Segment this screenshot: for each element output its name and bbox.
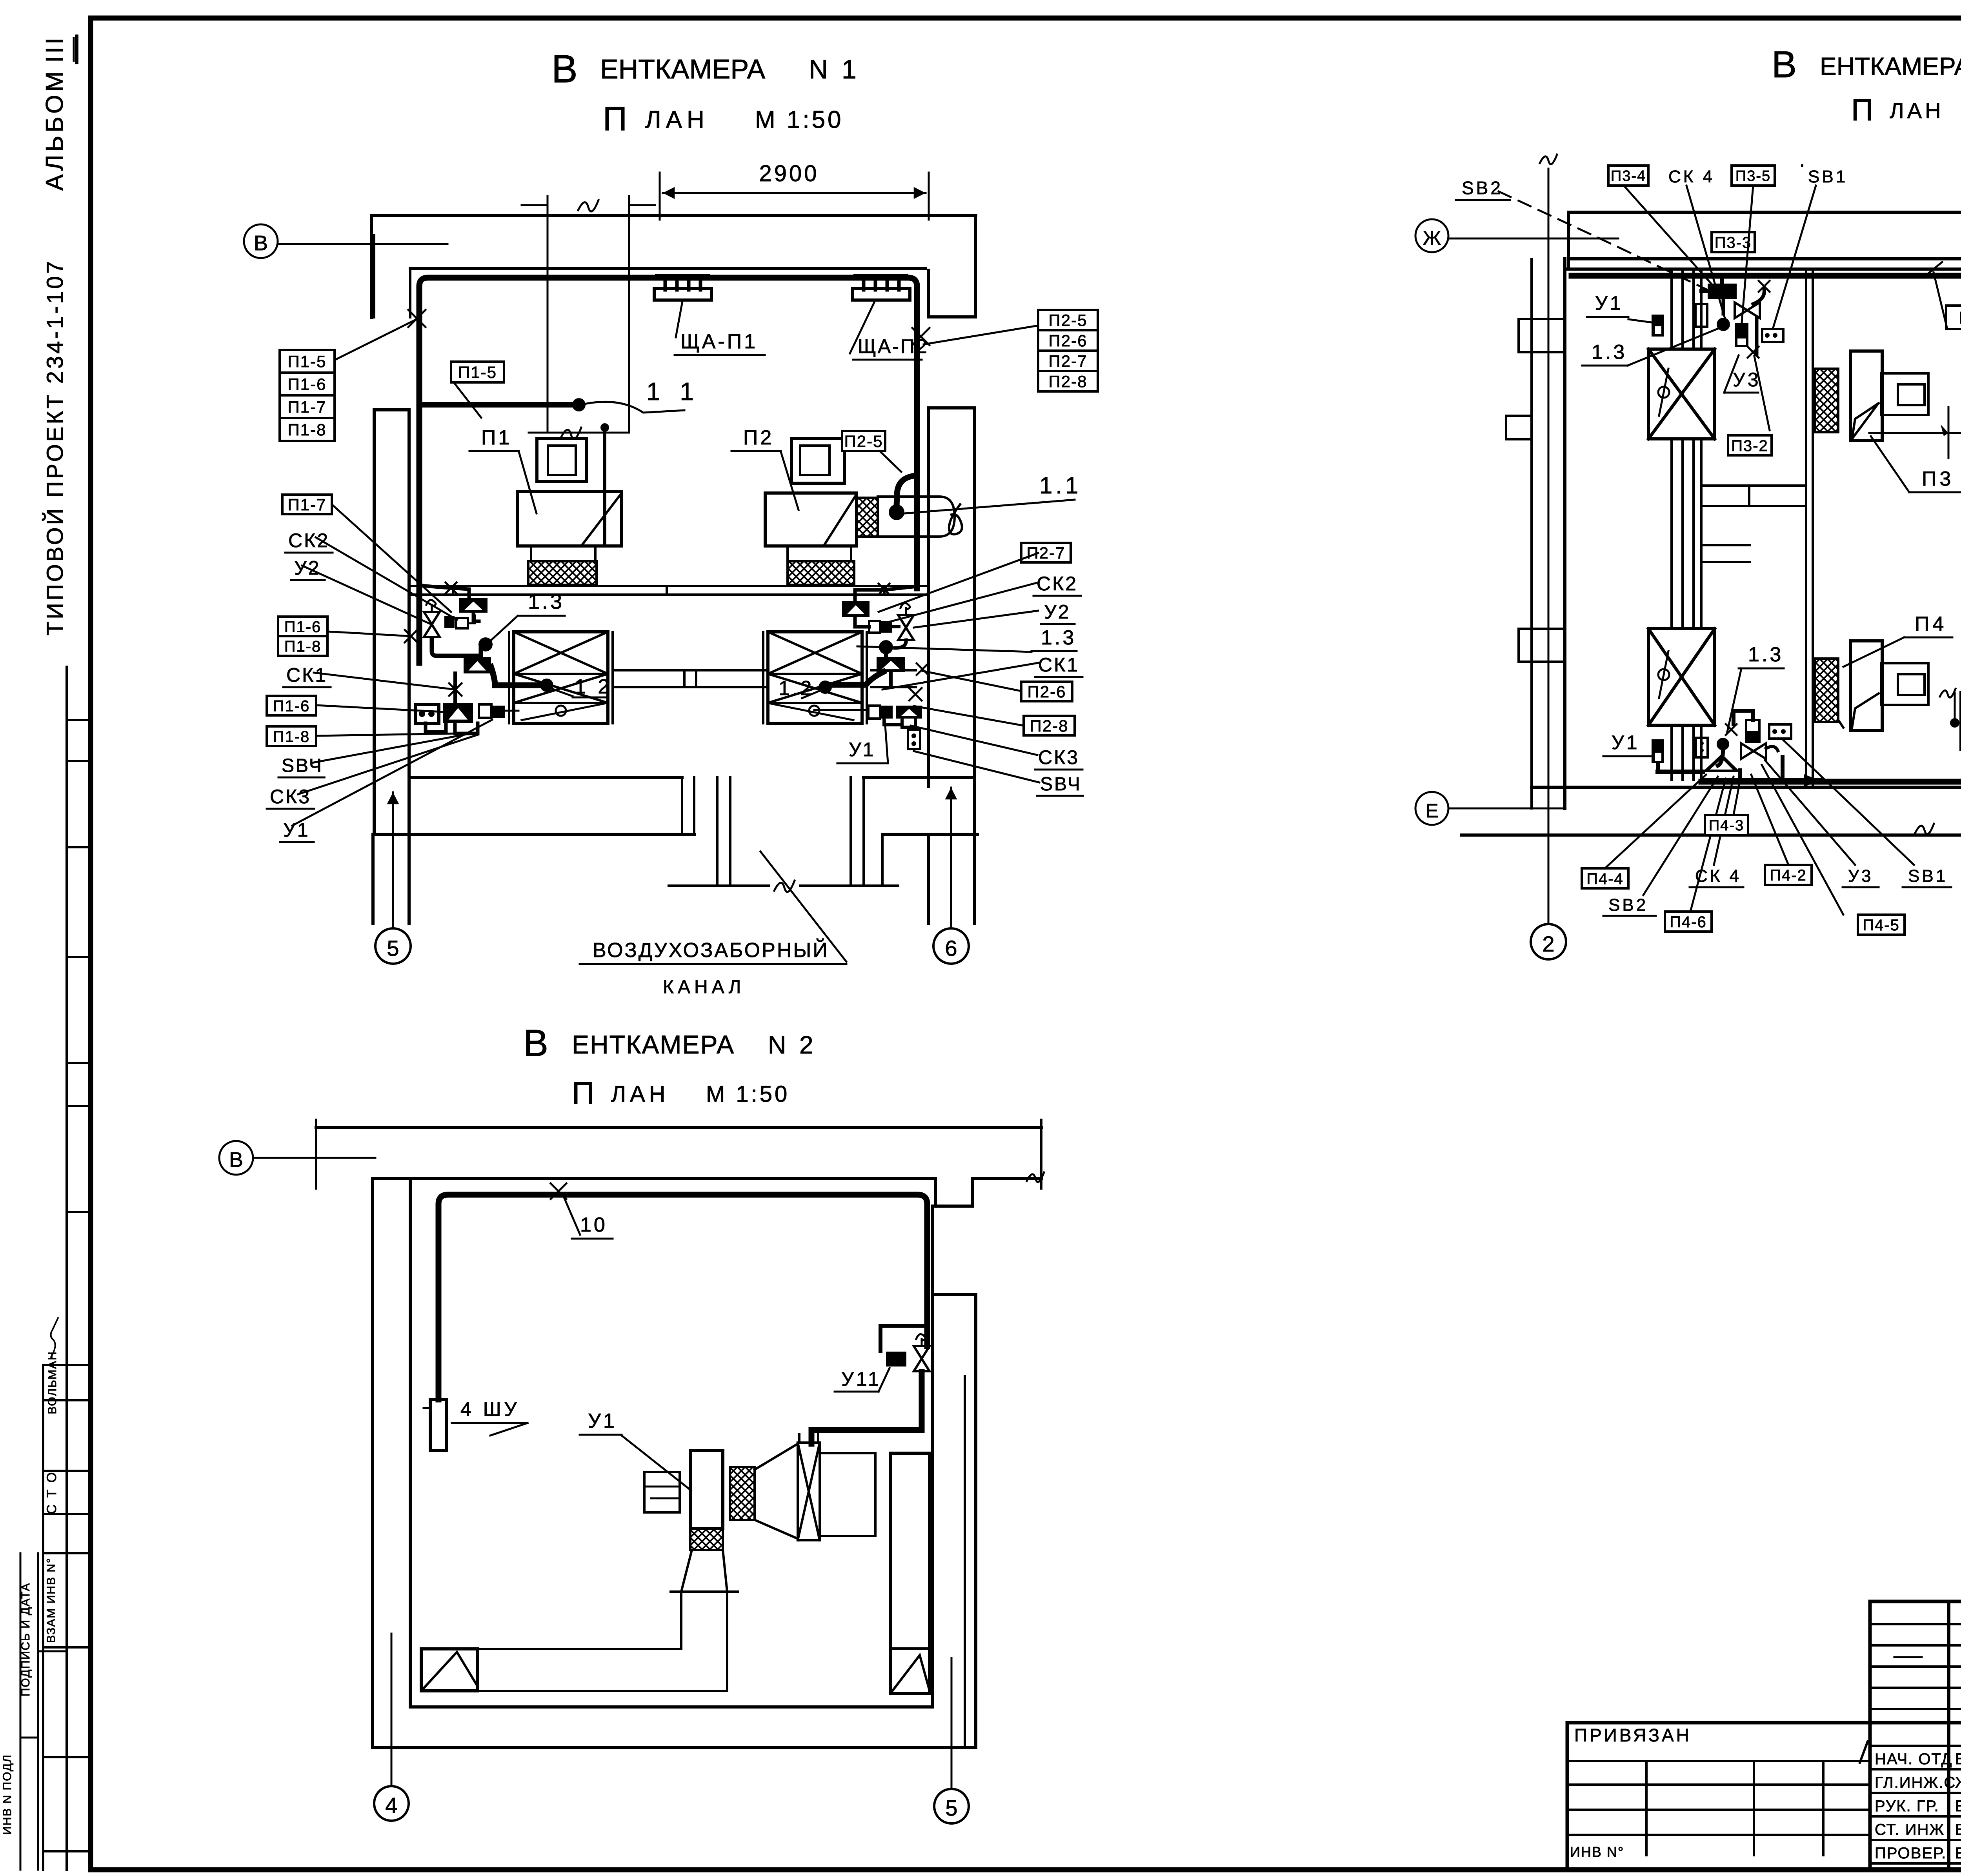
svg-text:ВОЛЬМАН: ВОЛЬМАН <box>46 1351 59 1414</box>
svg-text:SВ2: SВ2 <box>1608 895 1648 915</box>
svg-text:П2-8: П2-8 <box>1049 372 1088 391</box>
svg-text:С Т О: С Т О <box>44 1471 59 1514</box>
svg-text:П2: П2 <box>743 426 774 449</box>
svg-text:Ж: Ж <box>1423 227 1441 249</box>
svg-text:У1: У1 <box>849 739 875 761</box>
svg-text:В: В <box>1772 44 1797 86</box>
svg-text:П2-7: П2-7 <box>1049 352 1088 370</box>
svg-text:ПРИВЯЗАН: ПРИВЯЗАН <box>1574 1725 1692 1745</box>
svg-text:П1-7: П1-7 <box>288 495 327 514</box>
svg-text:П: П <box>1851 93 1873 127</box>
svg-text:У3: У3 <box>1848 866 1873 886</box>
svg-text:П2-6: П2-6 <box>1049 331 1088 350</box>
svg-text:В: В <box>254 231 268 255</box>
svg-text:П3-1: П3-1 <box>1959 308 1961 328</box>
svg-text:П2-5: П2-5 <box>1049 311 1088 329</box>
svg-text:У1: У1 <box>1595 292 1623 314</box>
svg-text:ИНВ N ПОДЛ: ИНВ N ПОДЛ <box>1 1754 14 1835</box>
svg-text:ЛАН: ЛАН <box>645 106 709 133</box>
svg-text:П4-6: П4-6 <box>1670 913 1707 931</box>
svg-text:SВ1: SВ1 <box>1808 167 1848 186</box>
svg-text:ЕФРЕМОВА: ЕФРЕМОВА <box>1955 1798 1961 1815</box>
svg-text:ЕНТКАМЕРА: ЕНТКАМЕРА <box>572 1030 735 1059</box>
svg-text:М 1:50: М 1:50 <box>706 1081 789 1107</box>
svg-text:П1-6: П1-6 <box>284 618 322 635</box>
svg-text:П3-2: П3-2 <box>1731 437 1768 455</box>
svg-text:SВ2: SВ2 <box>1462 178 1503 198</box>
svg-text:П2-6: П2-6 <box>1028 682 1066 701</box>
svg-text:П: П <box>603 100 627 138</box>
svg-text:СК 4: СК 4 <box>1695 866 1741 886</box>
svg-text:1 2: 1 2 <box>575 675 612 698</box>
svg-text:ПРОВЕР.: ПРОВЕР. <box>1875 1845 1946 1862</box>
svg-text:1 1: 1 1 <box>646 377 700 406</box>
svg-text:П4: П4 <box>1915 613 1947 635</box>
svg-text:НАЧ. ОТД: НАЧ. ОТД <box>1875 1750 1953 1768</box>
svg-text:П3-4: П3-4 <box>1611 168 1646 184</box>
svg-text:ЕФРЕМОВА: ЕФРЕМОВА <box>1955 1845 1961 1862</box>
svg-text:ЛАН: ЛАН <box>1890 98 1944 123</box>
svg-text:У1: У1 <box>1612 731 1640 753</box>
svg-text:П3: П3 <box>1922 468 1954 490</box>
svg-text:П2-8: П2-8 <box>1030 717 1069 735</box>
svg-text:ТИПОВОЙ ПРОЕКТ 234-1-107: ТИПОВОЙ ПРОЕКТ 234-1-107 <box>42 259 68 635</box>
svg-text:1.3: 1.3 <box>528 590 564 613</box>
svg-text:П1-8: П1-8 <box>273 728 310 745</box>
svg-text:ВОЗДУХОЗАБОРНЫЙ: ВОЗДУХОЗАБОРНЫЙ <box>593 939 829 962</box>
svg-text:SВ1: SВ1 <box>1908 866 1948 886</box>
svg-text:П1-8: П1-8 <box>288 420 327 439</box>
svg-text:СК3: СК3 <box>270 786 311 808</box>
svg-text:У1: У1 <box>588 1410 617 1432</box>
svg-text:5: 5 <box>387 936 399 961</box>
svg-text:СК 4: СК 4 <box>1668 167 1715 186</box>
svg-text:В: В <box>523 1022 548 1064</box>
svg-text:SВЧ: SВЧ <box>1040 774 1082 795</box>
svg-text:Е: Е <box>1425 800 1438 822</box>
svg-text:РУК. ГР.: РУК. ГР. <box>1875 1798 1939 1815</box>
svg-text:ЕНТКАМЕРА: ЕНТКАМЕРА <box>600 54 765 84</box>
svg-text:N 1: N 1 <box>809 55 860 84</box>
svg-text:СК1: СК1 <box>1038 654 1079 676</box>
svg-text:КАНАЛ: КАНАЛ <box>663 977 745 997</box>
svg-text:М 1:50: М 1:50 <box>755 106 844 133</box>
svg-text:ГЛ.ИНЖ.С: ГЛ.ИНЖ.С <box>1875 1774 1956 1791</box>
svg-text:ЩА-П1: ЩА-П1 <box>680 330 758 353</box>
svg-text:П4-5: П4-5 <box>1863 917 1900 934</box>
svg-text:В: В <box>551 47 578 91</box>
svg-text:1.3: 1.3 <box>1592 341 1627 364</box>
svg-text:5: 5 <box>945 1796 957 1820</box>
svg-text:4 ШУ: 4 ШУ <box>460 1398 520 1420</box>
svg-text:СК3: СК3 <box>1038 746 1079 768</box>
svg-text:1.3: 1.3 <box>1041 626 1076 649</box>
svg-text:П2-5: П2-5 <box>844 432 883 451</box>
svg-text:СК2: СК2 <box>288 530 329 551</box>
svg-text:ИНВ N°: ИНВ N° <box>1570 1844 1624 1860</box>
svg-text:СТ. ИНЖ: СТ. ИНЖ <box>1875 1821 1945 1838</box>
svg-text:N 2: N 2 <box>768 1031 817 1059</box>
svg-text:ЕНТКАМЕРА: ЕНТКАМЕРА <box>1820 52 1961 80</box>
svg-text:1.1: 1.1 <box>1039 472 1081 499</box>
svg-text:ЖИЛОВ: ЖИЛОВ <box>1955 1774 1961 1791</box>
svg-text:У1: У1 <box>283 819 310 841</box>
svg-text:В: В <box>229 1148 243 1172</box>
svg-text:У11: У11 <box>841 1368 881 1390</box>
svg-text:П3-5: П3-5 <box>1735 168 1771 184</box>
svg-text:АЛЬБОМ: АЛЬБОМ <box>41 68 68 191</box>
svg-text:П: П <box>572 1075 595 1110</box>
svg-text:III: III <box>41 35 68 63</box>
svg-text:SВЧ: SВЧ <box>282 755 323 776</box>
svg-text:10: 10 <box>580 1214 608 1236</box>
svg-text:СК2: СК2 <box>1037 573 1078 595</box>
svg-text:П4-2: П4-2 <box>1770 867 1807 884</box>
svg-text:БЕЛОВ: БЕЛОВ <box>1955 1750 1961 1768</box>
svg-text:П3-3: П3-3 <box>1715 234 1752 251</box>
svg-text:6: 6 <box>945 936 957 961</box>
svg-text:БАРИНОВА: БАРИНОВА <box>1955 1821 1961 1838</box>
svg-text:2: 2 <box>1542 932 1554 956</box>
svg-text:П1-6: П1-6 <box>288 375 327 393</box>
svg-text:2900: 2900 <box>759 161 819 186</box>
svg-text:П1-5: П1-5 <box>458 363 497 382</box>
svg-text:П2-7: П2-7 <box>1027 544 1066 562</box>
svg-text:П4-4: П4-4 <box>1586 870 1624 888</box>
svg-text:П1: П1 <box>481 426 512 449</box>
svg-text:У2: У2 <box>1044 601 1071 623</box>
svg-text:П1-6: П1-6 <box>273 697 310 715</box>
svg-text:ВЗАМ ИНВ N°: ВЗАМ ИНВ N° <box>45 1558 58 1643</box>
svg-text:1.3: 1.3 <box>1748 643 1783 666</box>
svg-text:П4-3: П4-3 <box>1709 817 1744 834</box>
svg-text:У2: У2 <box>294 557 321 579</box>
svg-text:П1-8: П1-8 <box>284 638 322 655</box>
svg-text:СК1: СК1 <box>286 664 327 686</box>
svg-text:П1-5: П1-5 <box>288 352 327 371</box>
svg-text:4: 4 <box>385 1793 397 1818</box>
svg-text:П1-7: П1-7 <box>288 398 327 416</box>
svg-text:ЛАН: ЛАН <box>611 1081 669 1107</box>
